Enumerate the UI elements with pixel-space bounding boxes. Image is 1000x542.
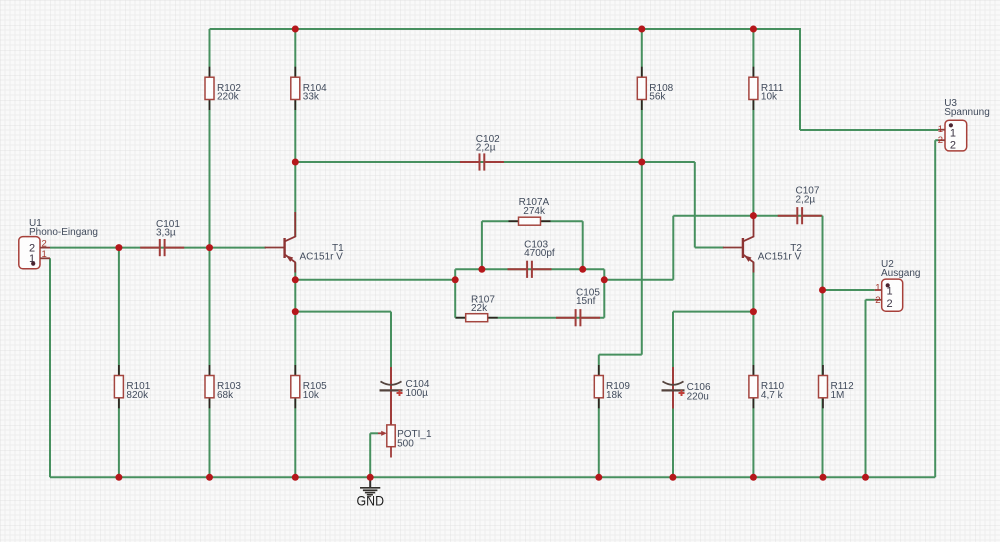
svg-text:2: 2	[950, 140, 956, 152]
svg-text:820k: 820k	[126, 390, 149, 401]
svg-text:2: 2	[887, 298, 893, 310]
svg-text:Spannung: Spannung	[944, 107, 990, 118]
svg-text:22k: 22k	[471, 303, 488, 314]
svg-text:33k: 33k	[303, 92, 320, 103]
svg-text:4,7 k: 4,7 k	[761, 390, 784, 401]
svg-text:AC151r V: AC151r V	[300, 251, 344, 262]
svg-text:2,2µ: 2,2µ	[476, 143, 496, 154]
svg-text:1M: 1M	[831, 390, 845, 401]
svg-text:68k: 68k	[217, 390, 234, 401]
svg-text:4700pf: 4700pf	[524, 248, 555, 259]
svg-text:15nf: 15nf	[576, 296, 596, 307]
svg-text:2: 2	[42, 239, 47, 250]
svg-text:1: 1	[42, 249, 47, 260]
svg-text:Ausgang: Ausgang	[881, 268, 920, 279]
svg-text:1: 1	[938, 124, 943, 135]
svg-text:220u: 220u	[687, 392, 709, 403]
svg-text:1: 1	[875, 282, 880, 293]
svg-text:2: 2	[875, 295, 880, 306]
svg-text:GND: GND	[357, 493, 385, 509]
svg-text:Phono-Eingang: Phono-Eingang	[29, 227, 98, 238]
svg-text:2,2µ: 2,2µ	[796, 194, 816, 205]
svg-text:18k: 18k	[606, 390, 623, 401]
svg-text:220k: 220k	[217, 92, 240, 103]
svg-text:AC151r V: AC151r V	[758, 251, 802, 262]
svg-text:56k: 56k	[649, 92, 666, 103]
svg-text:3,3µ: 3,3µ	[156, 228, 176, 239]
svg-text:2: 2	[938, 135, 943, 146]
svg-text:1: 1	[950, 128, 956, 140]
svg-text:10k: 10k	[761, 92, 778, 103]
svg-text:500: 500	[397, 438, 414, 449]
svg-text:274k: 274k	[523, 206, 546, 217]
svg-text:10k: 10k	[303, 390, 320, 401]
svg-text:100µ: 100µ	[406, 388, 429, 399]
